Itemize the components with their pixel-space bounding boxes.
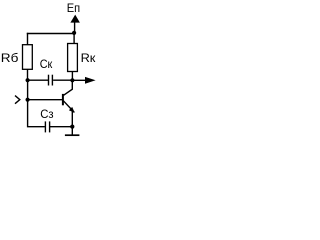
capacitor Ск: [49, 75, 53, 86]
transistor VT base bar: [62, 94, 64, 105]
wire Сз to emitter node: [50, 126, 72, 128]
ground: [65, 134, 80, 136]
node A junction dot below Rб: [26, 78, 30, 82]
resistor Rб: [23, 45, 33, 70]
capacitor Сз: [45, 121, 49, 132]
wire Ск to node B: [53, 79, 72, 81]
wire emitter node to ground: [71, 127, 73, 135]
svg-text:Ск: Ск: [40, 57, 53, 71]
label Rб: [1, 51, 19, 65]
output arrow: [85, 77, 96, 84]
wire node A to Ск: [28, 79, 49, 81]
transistor VT collector lead: [64, 80, 73, 95]
resistor Rк: [68, 44, 78, 72]
node B junction dot below Rк: [70, 78, 74, 82]
label Ск: [40, 57, 53, 71]
label Сз: [40, 107, 54, 121]
svg-text:Rк: Rк: [81, 51, 96, 65]
svg-text:Rб: Rб: [1, 51, 19, 65]
node C input junction dot: [26, 98, 30, 102]
svg-text:Сз: Сз: [40, 107, 54, 121]
wire node B to output arrow: [72, 79, 86, 81]
power arrow Еп: [70, 15, 80, 34]
label Еп: [67, 1, 80, 15]
label Rк: [81, 51, 96, 65]
input arrow chevron: [15, 96, 20, 104]
wire Rк bottom stub: [71, 72, 73, 81]
wire left rail middle segment: [27, 80, 29, 100]
wire top supply rail: [27, 33, 75, 35]
wire base lead: [28, 99, 63, 101]
wire Rб bottom stub: [27, 69, 29, 80]
wire right rail top segment: [73, 33, 75, 44]
svg-text:Еп: Еп: [67, 1, 80, 15]
wire left rail bottom segment with corner to Сз: [28, 100, 45, 127]
node junction dot at top of right rail: [72, 31, 76, 35]
node E emitter junction dot: [70, 125, 74, 129]
transistor VT emitter lead with arrow: [63, 101, 74, 127]
wire left rail top segment: [27, 33, 29, 45]
